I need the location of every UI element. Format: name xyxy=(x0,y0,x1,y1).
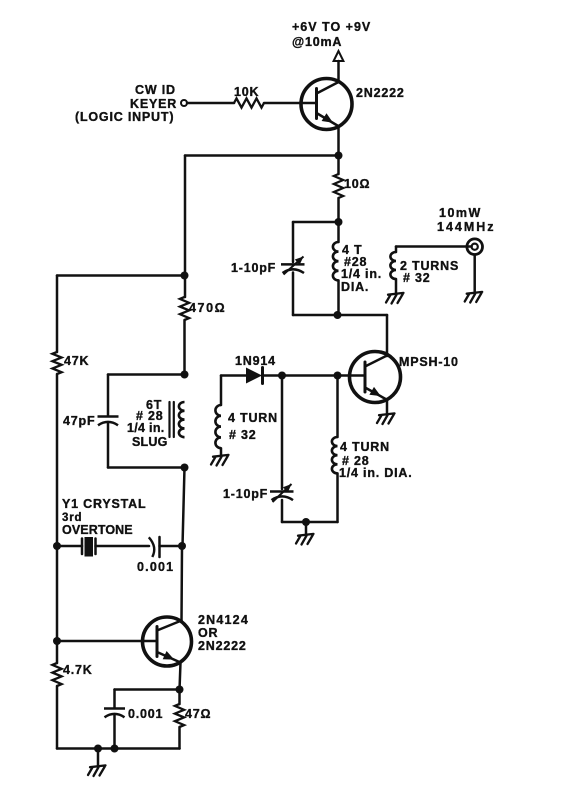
svg-text:Y1 CRYSTAL: Y1 CRYSTAL xyxy=(62,497,146,511)
wire N4 down to trimmer xyxy=(281,376,284,490)
label 47K xyxy=(64,354,89,368)
resistor R6 47-ohm lead xyxy=(178,690,181,705)
connector J1 output xyxy=(467,239,483,255)
node N4 junction xyxy=(278,372,286,380)
wire cap branch down xyxy=(113,690,116,709)
label 4T #28 quarter-in DIA xyxy=(341,243,382,294)
node N2 junction xyxy=(335,218,343,226)
node N14 junction xyxy=(94,745,102,753)
inductor L1 4T #28 xyxy=(333,242,339,280)
inductor L4 4 TURN #28 xyxy=(332,437,338,473)
wire 10-ohm to N2 xyxy=(337,198,340,222)
wire diode to Q2 base xyxy=(263,374,366,377)
node N11 junction xyxy=(178,542,186,550)
crystal Y1 3rd overtone xyxy=(82,537,96,557)
wire N1 to 10-ohm xyxy=(337,156,340,175)
inductor L4 bottom lead xyxy=(336,473,339,522)
svg-text:@10mA: @10mA xyxy=(292,35,342,49)
wire cap to N11 xyxy=(160,545,183,548)
inductor L2 bottom lead xyxy=(395,279,398,293)
svg-text:47K: 47K xyxy=(64,354,89,368)
wire connector down xyxy=(473,255,476,292)
label 4.7K xyxy=(63,663,93,677)
wire 47pF top lead xyxy=(107,375,110,417)
ground under L2 xyxy=(386,293,404,304)
svg-text:SLUG: SLUG xyxy=(132,435,168,449)
svg-text:1-10pF: 1-10pF xyxy=(231,261,276,275)
svg-text:(LOGIC INPUT): (LOGIC INPUT) xyxy=(75,110,174,124)
label 1-10pF xyxy=(231,261,276,275)
wire Q3 base xyxy=(57,640,157,643)
wire emitter to cap branch xyxy=(115,688,180,691)
diode D1 1N914 xyxy=(246,368,263,384)
wire output horizontal xyxy=(396,245,472,248)
inductor L2 2 TURNS #32 xyxy=(390,252,396,279)
svg-text:47Ω: 47Ω xyxy=(185,707,211,721)
wire left branch down xyxy=(184,156,187,298)
svg-text:1/4 in.: 1/4 in. xyxy=(127,421,165,435)
label Y1 CRYSTAL 3rd OVERTONE xyxy=(62,497,146,537)
capacitor C3 47pF xyxy=(98,417,119,426)
ground stem second tank xyxy=(305,522,308,534)
wire Q1 emitter down xyxy=(337,127,340,157)
svg-text:0.001: 0.001 xyxy=(128,707,163,721)
trimmer capacitor C2 1-10pF xyxy=(270,484,294,502)
node N8 junction xyxy=(181,371,189,379)
node N15 junction xyxy=(111,745,119,753)
inductor L5 6T slug-tuned xyxy=(170,402,185,437)
inductor L3 bottom lead xyxy=(220,448,223,455)
svg-text:MPSH-10: MPSH-10 xyxy=(399,355,459,369)
wire 47-ohm to bottom rail xyxy=(178,727,181,749)
svg-text:2N4124: 2N4124 xyxy=(198,613,249,627)
node N10 junction xyxy=(53,542,61,550)
svg-text:1/4 in. DIA.: 1/4 in. DIA. xyxy=(339,466,413,480)
svg-text:144MHz: 144MHz xyxy=(437,220,496,234)
wire bottom of second tank xyxy=(282,521,338,524)
wire Q3 emitter xyxy=(180,663,181,691)
wire Q2 emitter xyxy=(386,400,389,414)
trimmer capacitor C1 1-10pF xyxy=(281,257,305,275)
wire trimmer vertical top xyxy=(292,222,295,262)
power supply label +6V TO +9V @10mA xyxy=(292,20,371,49)
ground under Q2 emitter xyxy=(377,413,395,424)
label 4 TURN #28 quarter-in DIA xyxy=(339,440,413,480)
wire left rail upper xyxy=(56,276,59,353)
ground under L3 xyxy=(211,455,229,466)
svg-text:# 32: # 32 xyxy=(229,428,257,442)
inductor L2 lead xyxy=(395,247,398,253)
wire bottom rail xyxy=(57,747,180,750)
wire input to resistor xyxy=(187,102,234,105)
label CW ID KEYER (LOGIC INPUT) xyxy=(75,83,177,124)
label 47-ohm xyxy=(185,707,211,721)
svg-text:CW ID: CW ID xyxy=(135,83,176,97)
wire trimmer vertical bottom xyxy=(292,273,295,316)
svg-text:OR: OR xyxy=(198,626,218,640)
svg-text:1-10pF: 1-10pF xyxy=(223,487,268,501)
svg-text:1N914: 1N914 xyxy=(235,354,276,368)
label MPSH-10 xyxy=(399,355,459,369)
inductor L1 4T top lead xyxy=(337,222,340,242)
wire N1 to left xyxy=(185,154,339,157)
label 6T #28 quarter-in SLUG xyxy=(127,398,168,449)
label 10-ohm xyxy=(344,177,370,191)
resistor R1 10K xyxy=(234,98,264,107)
ground bottom xyxy=(88,765,106,776)
wire left rail middle xyxy=(56,374,59,663)
wire N2 to trimmer top xyxy=(293,221,339,224)
inductor L3 4 TURN #32 xyxy=(215,405,221,448)
label 1-10pF second xyxy=(223,487,268,501)
resistor R2 10-ohm xyxy=(334,174,343,198)
ground under connector xyxy=(465,292,483,303)
wire tank bottom xyxy=(293,314,387,317)
wire N11 down to Q3 collector xyxy=(180,546,183,621)
wire left rail bottom xyxy=(56,686,59,749)
svg-text:4 TURN: 4 TURN xyxy=(340,440,390,454)
wire N9 down to crystal node xyxy=(183,468,185,547)
ground stem bottom xyxy=(97,749,100,766)
transistor Q3 2N4124 xyxy=(143,617,192,666)
wire crystal left lead xyxy=(57,545,82,548)
resistor R6 47-ohm xyxy=(175,704,184,727)
resistor R4 47K xyxy=(52,352,61,374)
svg-text:DIA.: DIA. xyxy=(341,280,369,294)
wire cap to bottom rail xyxy=(113,715,116,749)
label 2N2222 xyxy=(356,86,405,100)
node N12 junction xyxy=(53,637,61,645)
svg-text:+6V TO +9V: +6V TO +9V xyxy=(292,20,371,34)
label 1N914 xyxy=(235,354,276,368)
wire resistor to Q1 base xyxy=(264,102,317,105)
svg-text:10mW: 10mW xyxy=(439,206,482,220)
power arrow xyxy=(334,51,344,82)
svg-text:# 32: # 32 xyxy=(403,271,431,285)
svg-text:1/4 in.: 1/4 in. xyxy=(341,267,382,281)
wire N3 to Q2 collector xyxy=(386,315,389,356)
wire down to L3 xyxy=(220,376,223,406)
node N3 junction xyxy=(334,311,342,319)
label 4 TURN #32 xyxy=(228,411,278,442)
wire trimmer to corner xyxy=(281,500,284,522)
label 0.001 bypass xyxy=(128,707,163,721)
ground under second tank xyxy=(296,534,314,545)
svg-text:4.7K: 4.7K xyxy=(63,663,93,677)
svg-text:10Ω: 10Ω xyxy=(344,177,370,191)
svg-text:OVERTONE: OVERTONE xyxy=(62,523,133,537)
node N1 junction xyxy=(335,152,343,160)
node N7 junction xyxy=(181,272,189,280)
label 2N4124 OR 2N2222 xyxy=(198,613,249,653)
wire N5 down to L4 xyxy=(336,376,339,438)
node N6 junction xyxy=(302,518,310,526)
transistor Q1 2N2222 xyxy=(301,79,352,130)
svg-text:2N2222: 2N2222 xyxy=(356,86,405,100)
label 2 TURNS #32 xyxy=(400,259,459,285)
svg-text:10K: 10K xyxy=(234,85,259,99)
label 0.001 coupling xyxy=(137,560,174,574)
capacitor C5 0.001 bypass xyxy=(104,709,125,718)
wire 47pF bottom lead xyxy=(107,423,110,468)
svg-text:47pF: 47pF xyxy=(63,414,95,428)
resistor R5 4.7K xyxy=(52,663,61,686)
wire tank bottom xyxy=(108,466,185,469)
label 10K xyxy=(234,85,259,99)
wire 470-ohm to N8 xyxy=(183,320,186,375)
capacitor C4 0.001 coupling xyxy=(149,537,160,557)
svg-text:470Ω: 470Ω xyxy=(189,301,226,315)
label 10mW 144MHz xyxy=(437,206,496,234)
transistor Q2 MPSH-10 xyxy=(350,352,401,403)
input terminal xyxy=(181,100,187,106)
svg-text:KEYER: KEYER xyxy=(130,97,177,111)
wire tank top xyxy=(108,373,185,376)
label 47pF xyxy=(63,414,95,428)
svg-text:0.001: 0.001 xyxy=(137,560,174,574)
wire top horizontal to left rail xyxy=(57,274,185,277)
node N5 junction xyxy=(334,372,342,380)
label 470-ohm xyxy=(189,301,226,315)
node N13 junction xyxy=(176,686,184,694)
node N9 junction xyxy=(181,464,189,472)
wire crystal to cap xyxy=(96,545,150,548)
svg-text:2N2222: 2N2222 xyxy=(198,639,247,653)
resistor R3 470-ohm xyxy=(180,297,189,320)
wire left of diode xyxy=(221,374,246,377)
svg-text:4 TURN: 4 TURN xyxy=(228,411,278,425)
inductor L1 bottom lead xyxy=(337,280,340,315)
